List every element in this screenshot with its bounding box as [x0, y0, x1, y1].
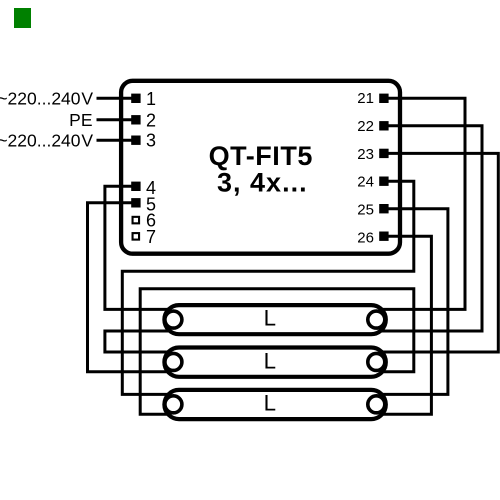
svg-text:7: 7 [146, 227, 156, 247]
svg-text:1: 1 [146, 89, 156, 109]
svg-text:L: L [264, 348, 276, 373]
svg-text:3, 4x...: 3, 4x... [217, 167, 308, 197]
svg-text:~220...240V: ~220...240V [0, 131, 93, 151]
svg-text:2: 2 [146, 110, 156, 130]
svg-text:22: 22 [357, 118, 374, 135]
svg-text:PE: PE [69, 110, 92, 130]
svg-text:25: 25 [357, 202, 374, 219]
svg-text:26: 26 [357, 229, 374, 246]
svg-text:24: 24 [357, 174, 374, 191]
svg-text:23: 23 [357, 146, 374, 163]
svg-text:QT-FIT5: QT-FIT5 [209, 141, 313, 171]
svg-text:L: L [264, 306, 276, 331]
svg-text:~220...240V: ~220...240V [0, 89, 93, 109]
svg-text:21: 21 [357, 90, 374, 107]
svg-text:L: L [264, 391, 276, 416]
svg-text:3: 3 [146, 131, 156, 151]
